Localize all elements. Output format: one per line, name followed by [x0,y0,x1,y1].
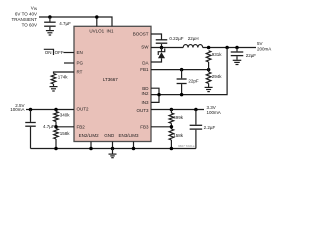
resistor R1 931k [206,51,211,62]
svg-text:4.7µF: 4.7µF [43,124,55,129]
svg-text:EN: EN [77,50,83,55]
wire PG stub [64,62,74,64]
wire IN2 to 5V [151,48,227,95]
svg-text:RT: RT [77,70,83,75]
wire OUT3 rail 3.3V [151,108,204,110]
wire FB2 tap [56,126,74,128]
junction dot 931k top [207,46,211,50]
svg-text:FB3: FB3 [140,125,149,130]
svg-text:EN3/LIM3: EN3/LIM3 [118,133,139,138]
pin labels top [89,28,114,33]
pin labels left [77,50,89,130]
ground input cap [46,31,54,35]
svg-text:499k: 499k [173,115,184,120]
resistor R_T 174k [51,74,56,85]
svg-text:TO 60V: TO 60V [22,23,37,28]
ground 294k [205,87,213,91]
svg-text:100mA: 100mA [10,107,24,112]
node VIN input rail wire [39,17,112,26]
svg-text:BOOST: BOOST [133,31,149,36]
wire EN3/LIM3 stub [132,142,134,149]
ground 22uF [233,60,242,64]
junction dot 22pF top [180,68,184,72]
wire UVLO1 drop [96,17,98,26]
wire GND stub [111,142,113,149]
wire BOOST [151,34,162,40]
svg-text:EN2/LIM2: EN2/LIM2 [79,133,100,138]
junction dot FB2 [54,125,58,129]
junction dot BD/IN2/IN3 [157,93,161,97]
svg-text:174k: 174k [58,75,69,80]
junction dot IN2 feed [225,46,229,50]
junction dot input cap [48,15,52,19]
wire OUT2 rail 2.5V [26,108,74,110]
svg-text:FB1: FB1 [140,67,149,72]
junction dot 22uF [235,46,239,50]
svg-text:TRANSIENT: TRANSIENT [11,17,37,22]
svg-text:BD: BD [142,86,149,91]
op-amp U1 regulator IC LT3667 body [74,26,151,141]
inductor L1 22uH [183,45,203,48]
resistor R5 499k [170,110,172,114]
junction dot FB3 [170,125,174,129]
junction dot EN3 bus [132,147,136,151]
resistor R4 158k left [54,129,59,140]
wire RT [54,72,75,74]
wire EN [64,51,75,53]
capacitor C1 4.7uF input [49,17,51,22]
capacitor C4 22uF output [236,48,238,52]
junction dot 22pF bottom [180,93,184,97]
svg-text:0.22µF: 0.22µF [169,36,183,41]
svg-text:GND: GND [104,133,115,138]
svg-text:LT3667: LT3667 [103,77,118,82]
pin labels right [133,31,150,129]
svg-text:200mA: 200mA [257,46,271,51]
diode D1 schottky catch [160,48,162,52]
svg-text:3667 TA01a: 3667 TA01a [178,144,195,148]
svg-text:6V TO 40V: 6V TO 40V [15,11,37,16]
svg-text:VIN: VIN [31,5,38,11]
svg-text:PG: PG [77,61,84,66]
svg-text:158k: 158k [60,131,71,136]
svg-text:22pF: 22pF [188,78,199,83]
capacitor C6 2.2uF [195,110,197,125]
junction dot out2 cap [29,108,33,112]
svg-text:OUT2: OUT2 [77,107,89,112]
svg-text:UVLO1: UVLO1 [89,28,104,33]
wire ground bus [31,147,196,149]
svg-text:IN1: IN1 [106,28,114,33]
junction dot 2.2uF top [194,108,198,112]
junction dot EN2 bus [89,147,93,151]
pin labels bottom [79,133,139,138]
resistor R3 340k [54,112,59,122]
switch ON/OFF [44,49,54,55]
wire FB3 tap [151,126,171,128]
svg-text:OFF: OFF [55,50,64,55]
svg-text:22µH: 22µH [188,36,199,41]
junction dot UVLO1 [95,15,99,19]
svg-text:340k: 340k [60,113,71,118]
svg-text:DA: DA [142,60,148,65]
ground RT [50,87,58,91]
junction dot 499k top [170,108,174,112]
capacitor C3 22pF [180,70,182,79]
svg-text:IN2: IN2 [141,91,149,96]
resistor R2 294k [206,72,211,84]
junction dot FB1/931k/294k [207,68,211,72]
svg-text:4.7µF: 4.7µF [59,21,71,26]
svg-text:OUT3: OUT3 [136,108,148,113]
svg-text:2.2µF: 2.2µF [204,125,216,130]
resistor R6 158k right [169,129,174,140]
wire FB1 [151,68,209,70]
svg-text:22µF: 22µF [246,53,257,58]
wire EN2/LIM2 stub [90,142,92,149]
svg-text:IN3: IN3 [141,100,149,105]
svg-text:3.3V: 3.3V [207,105,216,110]
wire SW output rail [151,46,183,48]
junction dot 340k top [54,108,58,112]
svg-text:294k: 294k [212,74,223,79]
junction dot diode/boost [160,46,164,50]
svg-text:ON: ON [45,50,52,55]
svg-text:158k: 158k [173,133,184,138]
wire IN3 jumper [151,95,159,103]
ground main symbol [111,149,113,154]
capacitor C5 4.7uF out2 [29,110,31,122]
svg-text:5V: 5V [257,41,263,46]
wire BD jumper [151,88,159,94]
junction dot 158k-right bus [170,147,174,151]
junction dot 158k-left bus [54,147,58,151]
capacitor C2 0.22uF boost [156,40,168,43]
junction dot GND bus [111,147,115,151]
svg-text:FB2: FB2 [77,125,86,130]
svg-text:931k: 931k [212,52,223,57]
svg-text:100mA: 100mA [207,110,221,115]
svg-text:SW: SW [141,44,149,49]
